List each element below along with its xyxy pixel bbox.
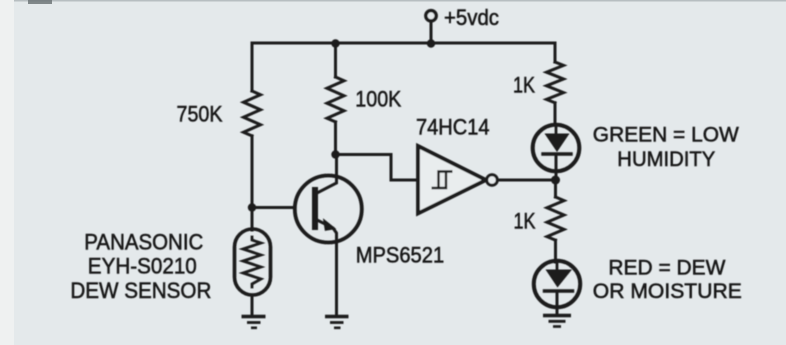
svg-text:HUMIDITY: HUMIDITY (617, 148, 715, 171)
transistor Q1 MPS6521 circle (295, 176, 362, 243)
resistor R4 1K bottom (547, 197, 564, 240)
svg-text:OR MOISTURE: OR MOISTURE (593, 280, 742, 303)
wire 1K to green LED (554, 103, 557, 125)
svg-text:1K: 1K (513, 73, 535, 98)
svg-text:750K: 750K (177, 101, 223, 126)
svg-text:74HC14: 74HC14 (416, 114, 490, 139)
node A junction dot (base node) (248, 203, 256, 211)
svg-text:100K: 100K (355, 87, 401, 112)
LED D1 triangle (545, 134, 570, 153)
resistor R3 1K top (547, 62, 564, 103)
wire left branch upper (to 750K) (251, 43, 254, 91)
wire output bubble to node C (498, 179, 552, 182)
LED D2 red circle (534, 261, 580, 307)
resistor R2 100K (327, 77, 344, 122)
transistor Q1 emitter arrowhead (324, 220, 335, 230)
wire node C to 1K bottom (554, 180, 557, 197)
svg-text:1K: 1K (514, 209, 536, 234)
svg-text:EYH-S0210: EYH-S0210 (88, 254, 197, 279)
wire base from node A (252, 206, 295, 209)
svg-text:PANASONIC: PANASONIC (84, 229, 203, 254)
svg-text:GREEN = LOW: GREEN = LOW (593, 124, 739, 147)
svg-text:RED = DEW: RED = DEW (608, 257, 725, 280)
LED D2 cathode bar (545, 289, 573, 292)
transistor Q1 base bar (312, 190, 318, 227)
transistor Q1 emitter (317, 220, 337, 316)
LED D2 triangle (546, 270, 573, 288)
ground under dew sensor (242, 317, 266, 328)
ground under transistor (325, 317, 349, 328)
wire 750K bottom to sensor (251, 136, 254, 230)
wire collector (317, 155, 337, 194)
ground under red LED (543, 316, 571, 327)
U1 hysteresis symbol (432, 172, 453, 189)
LED D1 cathode bar (543, 152, 571, 155)
wire node B to inverter input (336, 155, 419, 181)
LED D1 anode wire inside (555, 125, 558, 134)
dew sensor DS1 stadium body (235, 229, 271, 295)
node junction dot +5vdc tap (427, 39, 435, 47)
svg-text:MPS6521: MPS6521 (356, 243, 445, 268)
wire top rail (252, 42, 555, 45)
wire green LED to node C (555, 154, 558, 180)
node C junction dot (inverter output) (551, 176, 560, 185)
U1 output bubble (487, 175, 498, 186)
resistor R1 750K (244, 91, 261, 136)
wire 100K bottom to node B (334, 122, 337, 155)
svg-text:+5vdc: +5vdc (444, 5, 499, 30)
LED D1 green circle (533, 125, 580, 172)
LED D2 anode wire inside (556, 262, 559, 270)
op-amp U1 74HC14 inverter triangle (418, 146, 486, 214)
wire +5vdc stem (430, 21, 433, 43)
wire red LED to ground (556, 291, 559, 315)
svg-text:DEW SENSOR: DEW SENSOR (70, 278, 211, 303)
wire right branch top (rail to 1K) (554, 43, 557, 62)
wire sensor to ground (251, 295, 254, 316)
wire 1K to red LED (554, 240, 557, 262)
wire mid branch upper (to 100K) (334, 43, 337, 77)
node junction dot 100K top (331, 39, 339, 47)
node B junction dot (collector/input) (331, 150, 339, 158)
terminal +5vdc open circle (426, 11, 436, 21)
dew sensor DS1 internal resistor zigzag (243, 237, 261, 287)
